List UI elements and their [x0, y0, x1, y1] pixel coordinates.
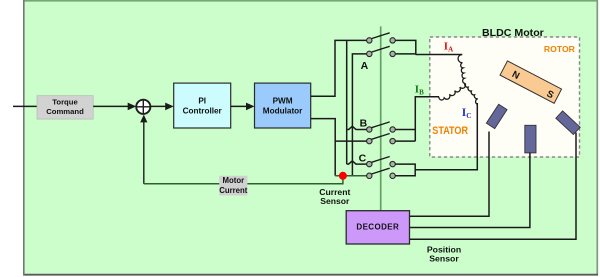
svg-text:Motor: Motor [222, 176, 244, 185]
wire PWM lower out [311, 119, 336, 176]
coil A [458, 55, 465, 84]
svg-text:Torque: Torque [52, 97, 78, 106]
wire torque->sum [93, 105, 130, 107]
coil C [465, 83, 478, 104]
wire B1 feed with hop [347, 126, 367, 129]
svg-text:PI: PI [198, 96, 206, 105]
svg-text:Modulator: Modulator [263, 107, 303, 116]
sensor wire 2 [410, 153, 530, 228]
hall sensor 3 [556, 111, 580, 135]
input wire [13, 105, 37, 107]
svg-text:BLDC Motor: BLDC Motor [482, 28, 544, 39]
svg-text:A: A [361, 60, 369, 72]
hall sensor 2 [525, 125, 536, 153]
wire C2 feed (current sense wire) [335, 175, 366, 177]
coil B [439, 83, 466, 100]
motor box [430, 37, 580, 157]
block Torque Command [37, 96, 93, 119]
feedback arrow into sum [143, 120, 145, 184]
sensor wire 3 [410, 133, 577, 240]
summing junction [136, 100, 150, 114]
svg-text:Controller: Controller [183, 107, 223, 116]
label Motor Current [219, 176, 248, 196]
green gate bus [380, 26, 382, 210]
svg-text:DECODER: DECODER [356, 223, 399, 232]
wire C1 feed with hop [347, 161, 367, 164]
block PI Controller [174, 83, 231, 128]
current sensor dot [339, 172, 347, 180]
svg-text:Sensor: Sensor [429, 254, 459, 264]
svg-text:STATOR: STATOR [432, 125, 468, 137]
wire B phase right [395, 97, 439, 141]
switch A [361, 33, 396, 72]
svg-text:Sensor: Sensor [320, 196, 350, 206]
wire A phase right [395, 40, 462, 54]
wire B2 feed [335, 140, 366, 142]
wire bus3 A2 feed [352, 54, 366, 176]
wire C phase right [395, 103, 477, 176]
block PWM Modulator [255, 83, 311, 128]
wire PI->PWM [231, 105, 249, 107]
svg-text:Command: Command [46, 107, 84, 116]
svg-text:Current: Current [219, 186, 248, 195]
wire PWM upper out [311, 40, 367, 96]
rotor magnet [500, 61, 561, 103]
svg-text:C: C [359, 153, 367, 165]
block DECODER [346, 211, 409, 244]
arrowhead [128, 103, 137, 111]
switch C [359, 153, 396, 179]
switch B [360, 118, 396, 144]
sensor wire 1 [410, 132, 490, 217]
wire bus2 upper-switch feed [346, 40, 348, 164]
hall sensor 1 [486, 104, 507, 128]
svg-text:B: B [360, 118, 368, 130]
wire feedback tap [144, 176, 343, 184]
wire sum->PI [150, 105, 167, 107]
svg-text:PWM: PWM [273, 96, 293, 105]
svg-text:ROTOR: ROTOR [544, 44, 576, 54]
